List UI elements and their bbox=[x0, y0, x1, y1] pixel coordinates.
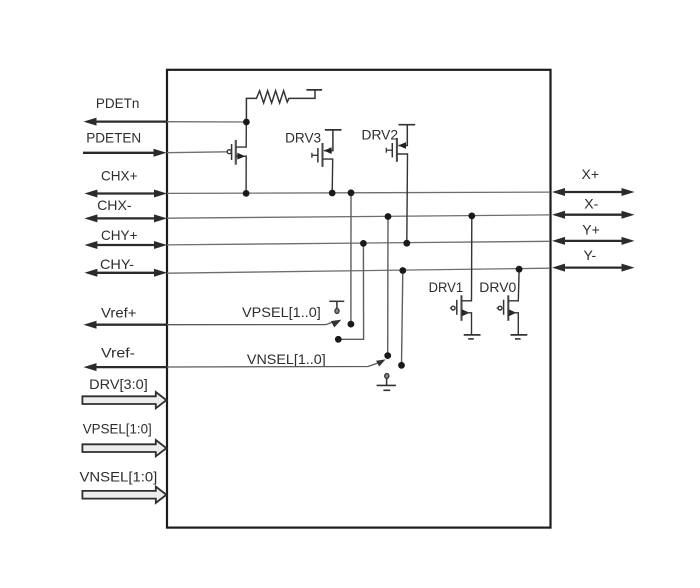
rail bar bbox=[399, 124, 416, 126]
svg-text:Y-: Y- bbox=[584, 247, 597, 263]
gate bar bbox=[503, 300, 505, 315]
junction node CHY+ tap bbox=[360, 240, 367, 247]
tap wire CHY+ to VPSEL contact bbox=[338, 243, 363, 339]
bus block arrow DRV[3:0] bbox=[82, 392, 166, 408]
port arrow Y- (bidir) bbox=[552, 264, 635, 272]
bus block arrow VNSEL[1:0] bbox=[82, 487, 166, 503]
gate bar bbox=[317, 148, 319, 162]
svg-text:X+: X+ bbox=[582, 166, 600, 182]
junction node DRV0 drain on CHY- bbox=[516, 266, 523, 273]
channel bar bbox=[322, 143, 324, 167]
svg-text:X-: X- bbox=[584, 195, 598, 211]
ground DRV0 bbox=[511, 334, 528, 336]
svg-text:Vref-: Vref- bbox=[101, 345, 135, 361]
ground DRV1 bbox=[464, 334, 481, 336]
VNSEL ground contact (circle over ground) bbox=[377, 374, 396, 391]
port arrow Vref+ (out, left) bbox=[84, 321, 169, 329]
source arrow bbox=[509, 309, 517, 316]
svg-text:DRV2: DRV2 bbox=[362, 127, 399, 143]
drain stem bbox=[398, 125, 407, 146]
transistor M1 (PDETEN pass device) bbox=[227, 124, 246, 194]
junction node DRV2 source on CHY+ bbox=[403, 240, 410, 247]
port arrow X- (bidir) bbox=[552, 211, 635, 219]
VNSEL selector pole (Vref-) bbox=[167, 359, 386, 367]
source lead down to CHY+ bbox=[397, 154, 408, 243]
junction node CHX+ tap bbox=[348, 189, 355, 196]
drain lead up to PDETn node bbox=[236, 124, 247, 148]
svg-text:VPSEL[1:0]: VPSEL[1:0] bbox=[83, 421, 152, 437]
junction node CHY- tap bbox=[399, 267, 406, 274]
tap wire CHY- to VNSEL contact bbox=[402, 271, 403, 366]
svg-text:DRV[3:0]: DRV[3:0] bbox=[89, 376, 148, 392]
drain lead up to CHX- bbox=[462, 218, 472, 301]
wire CHX- / X- net bbox=[167, 215, 550, 218]
wire PDETEN gate net (inside) bbox=[167, 151, 227, 154]
junction node DRV1 drain on CHX- bbox=[468, 213, 475, 220]
port arrow CHY+ (bidir) bbox=[84, 241, 167, 249]
gate lead and bubble bbox=[497, 307, 499, 309]
source arrow bbox=[462, 309, 470, 316]
source lead down bbox=[462, 313, 472, 335]
port arrow Y+ (bidir) bbox=[552, 237, 635, 245]
port arrow PDETn (out, left) bbox=[84, 118, 168, 126]
gate lead with tick bbox=[386, 149, 392, 151]
VPSEL selector pole (Vref+) bbox=[167, 320, 341, 328]
gate bar bbox=[456, 300, 458, 315]
VPSEL rail contact (T with circle) bbox=[329, 301, 344, 313]
junction node CHX- tap bbox=[385, 213, 392, 220]
port arrow Vref- (out, left) bbox=[84, 363, 169, 371]
junction node PDETn/resistor bbox=[243, 119, 250, 126]
source arrow bbox=[237, 153, 245, 160]
contact node VPSEL to CHX+ bbox=[348, 321, 355, 328]
resistor R1 with rail terminal bbox=[246, 90, 322, 122]
drain arrow into channel bbox=[324, 147, 332, 154]
gate bar bbox=[391, 143, 393, 157]
source lead down to CHX+ bbox=[236, 156, 246, 193]
svg-text:CHX+: CHX+ bbox=[101, 168, 138, 184]
svg-text:VNSEL[1:0]: VNSEL[1:0] bbox=[80, 469, 158, 485]
port arrow CHX- (bidir) bbox=[84, 214, 167, 222]
gate bubble bbox=[227, 150, 231, 154]
junction node M1 source on CHX+ bbox=[243, 190, 250, 197]
wire CHX+ / X+ net bbox=[167, 192, 550, 193]
port arrow PDETEN (in, right) bbox=[83, 149, 167, 157]
wire PDETn net (inside) bbox=[167, 121, 246, 123]
drain lead up to CHY- bbox=[508, 271, 519, 301]
wire CHY+ / Y+ net bbox=[167, 241, 550, 245]
gate lead with tick bbox=[312, 154, 318, 156]
port arrow X+ (bidir) bbox=[552, 188, 635, 196]
svg-text:Vref+: Vref+ bbox=[101, 305, 137, 321]
drain arrow into channel bbox=[398, 142, 406, 149]
tap wire CHX- to VNSEL contact bbox=[387, 217, 389, 356]
drain stem bbox=[324, 130, 333, 151]
rail bar bbox=[325, 129, 342, 131]
channel bar bbox=[396, 138, 398, 162]
svg-text:DRV0: DRV0 bbox=[479, 279, 516, 295]
contact node VPSEL to CHY+ bbox=[335, 336, 342, 343]
tap wire CHX+ to VPSEL contact bbox=[350, 193, 352, 324]
svg-text:CHY-: CHY- bbox=[100, 256, 134, 272]
svg-text:CHY+: CHY+ bbox=[101, 227, 138, 243]
port arrow CHY- (bidir) bbox=[84, 269, 167, 277]
svg-text:VNSEL[1..0]: VNSEL[1..0] bbox=[247, 351, 326, 367]
svg-text:CHX-: CHX- bbox=[97, 197, 132, 213]
channel bar bbox=[461, 295, 463, 321]
svg-text:PDETEN: PDETEN bbox=[86, 130, 141, 146]
gate bar bbox=[231, 144, 233, 160]
wire CHY- / Y- net bbox=[167, 268, 550, 273]
svg-text:DRV1: DRV1 bbox=[429, 279, 464, 295]
bus block arrow VPSEL[1:0] bbox=[82, 440, 166, 456]
gate lead and bubble bbox=[450, 307, 452, 309]
svg-text:DRV3: DRV3 bbox=[285, 130, 321, 146]
IC block outline bbox=[167, 70, 551, 528]
svg-text:VPSEL[1..0]: VPSEL[1..0] bbox=[242, 304, 321, 320]
source lead down bbox=[508, 313, 518, 335]
svg-text:PDETn: PDETn bbox=[96, 95, 139, 111]
source lead down to CHX+ bbox=[323, 159, 333, 193]
channel bar bbox=[507, 295, 509, 321]
channel bar bbox=[235, 140, 237, 165]
contact node VNSEL to CHY- bbox=[398, 362, 405, 369]
junction node DRV3 source on CHX+ bbox=[329, 190, 336, 197]
contact node VNSEL to CHX- bbox=[384, 352, 391, 359]
port arrow CHX+ (bidir) bbox=[84, 190, 167, 198]
svg-text:Y+: Y+ bbox=[582, 222, 600, 238]
